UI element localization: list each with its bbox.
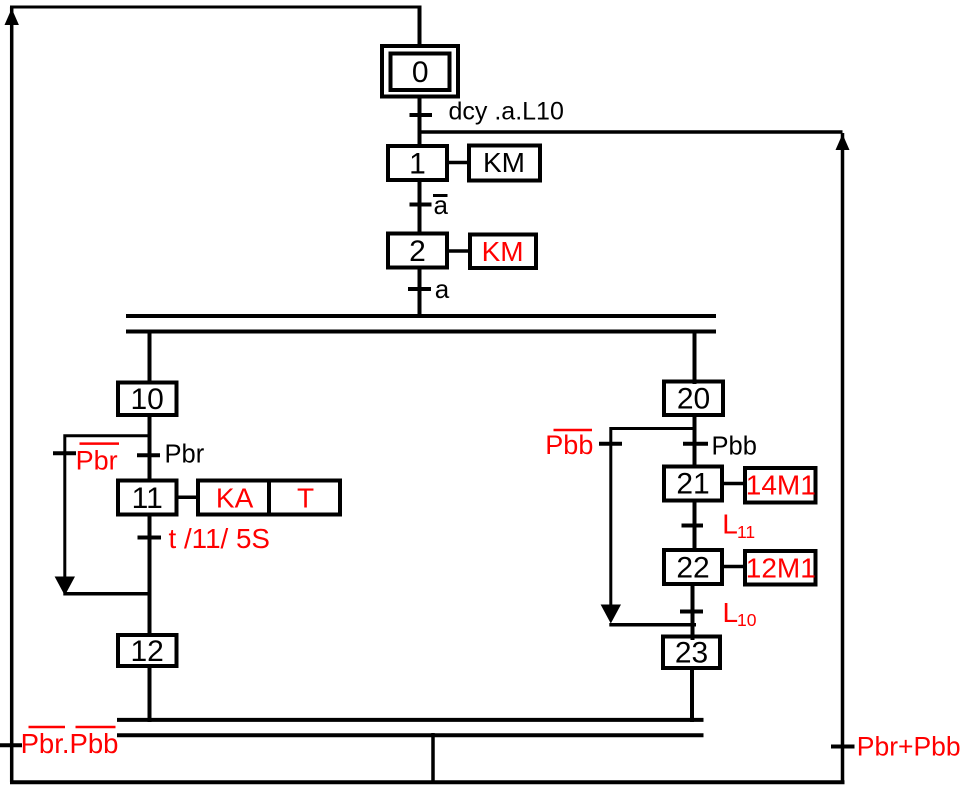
svg-text:22: 22 [676,551,709,584]
svg-text:L: L [722,508,738,539]
transition tick Pbr+Pbb [831,745,855,749]
transition tick L11 [682,524,704,528]
wire step 2 to parallel start [418,268,422,319]
wire step 23 to parallel end [690,668,694,722]
svg-text:Pbr+Pbb: Pbr+Pbb [857,732,961,762]
action box KM (step 1) [469,146,540,181]
svg-text:1: 1 [409,147,426,180]
wire step 1 to step 2 [418,180,422,235]
svg-text:20: 20 [677,383,710,416]
arrow up on left feedback wire [5,9,19,26]
arrow down on left loop [55,577,75,596]
wire right loop top and vertical [611,429,696,607]
step 22 box [664,550,722,584]
svg-text:23: 23 [675,637,708,670]
wire parallel start to step 10 [148,330,152,385]
step 11 box [118,481,177,515]
transition tick Pbr-bar on left loop [53,451,76,455]
wire parallel end to bottom feedback [431,733,435,782]
wire top feedback horizontal [10,6,422,9]
parallel start double line upper [126,314,716,318]
wire step 2 to action KM [449,249,472,253]
wire step 22 to step 23 [691,584,695,640]
svg-text:Pbr: Pbr [165,441,205,469]
action box 12M1 [745,551,816,585]
svg-text:14M1: 14M1 [746,470,816,501]
wire left loop top and vertical [65,436,151,578]
svg-text:a: a [435,274,450,304]
step 1 box [388,146,447,180]
wire step 11 to action KA [179,496,201,500]
svg-text:T: T [297,482,314,513]
wire into initial step 0 [418,7,422,48]
svg-text:KM: KM [482,236,524,267]
wire right return horizontal [420,130,843,134]
step 20 box [664,382,723,416]
svg-text:11: 11 [132,482,163,515]
wire step 0 to step 1 [418,96,422,148]
initial step 0 outer box [382,46,458,97]
transition tick dcy.a.L10 [410,113,433,117]
wire step 21 to action 14M1 [722,482,747,486]
wire left feedback vertical [10,7,14,782]
action box 14M1 [745,468,816,503]
transition tick a [408,287,431,291]
transition tick Pbb-bar on right loop [599,442,622,446]
svg-text:2: 2 [409,235,426,268]
svg-text:21: 21 [676,468,709,501]
svg-text:Pbb: Pbb [712,433,757,461]
svg-text:0: 0 [412,56,429,89]
parallel end double line upper [117,718,704,722]
overline of red Pbb [554,429,593,432]
parallel end double line lower [117,733,704,737]
svg-text:t /11/ 5S: t /11/ 5S [169,523,270,554]
wire right loop bottom [609,623,696,627]
wire step 11 to step 12 [148,515,152,638]
transition tick Pbr-bar.Pbb-bar [0,743,22,747]
wire step 10 to step 11 [148,415,152,482]
action box KA [198,481,269,515]
svg-text:Pbr: Pbr [76,445,118,475]
wire step 12 to parallel end [148,666,152,722]
action box T [269,481,340,515]
step 21 box [664,467,722,501]
svg-text:KM: KM [483,147,525,178]
svg-text:KA: KA [216,482,254,513]
step 10 box [118,383,177,416]
transition tick L10 [680,610,703,614]
wire parallel start to step 20 [693,330,697,385]
svg-text:dcy .a.L10: dcy .a.L10 [449,98,564,126]
transition tick t/11/5S [138,536,162,540]
arrow up on right feedback wire [836,134,850,150]
wire step 22 to action 12M1 [722,565,747,569]
arrow down on right loop [601,605,621,624]
wire step 1 to action KM [449,161,471,165]
svg-text:10: 10 [131,383,164,416]
wire right feedback vertical [841,133,845,782]
step 2 box [388,234,447,268]
action box KM (step 2) [470,235,536,269]
initial step 0 inner box [391,54,450,91]
svg-text:L: L [723,597,739,628]
wire left loop bottom [63,592,151,596]
step 23 box [663,637,720,669]
transition tick Pbb [683,442,708,446]
svg-text:12M1: 12M1 [746,553,816,584]
svg-text:11: 11 [737,522,755,542]
wire bottom feedback horizontal [10,780,845,784]
wire step 20 to step 21 [693,415,697,468]
overlines of red Pbr.Pbb [29,726,66,729]
svg-text:Pbb: Pbb [545,430,593,460]
svg-text:10: 10 [737,610,757,630]
overline of red Pbr [80,442,120,445]
transition tick a-bar [410,203,432,207]
svg-text:Pbr.Pbb: Pbr.Pbb [21,728,119,759]
parallel start double line lower [126,330,716,334]
step 12 box [118,635,177,666]
wire step 21 to step 22 [693,500,697,552]
transition tick Pbr [137,453,160,457]
svg-text:12: 12 [131,635,164,668]
